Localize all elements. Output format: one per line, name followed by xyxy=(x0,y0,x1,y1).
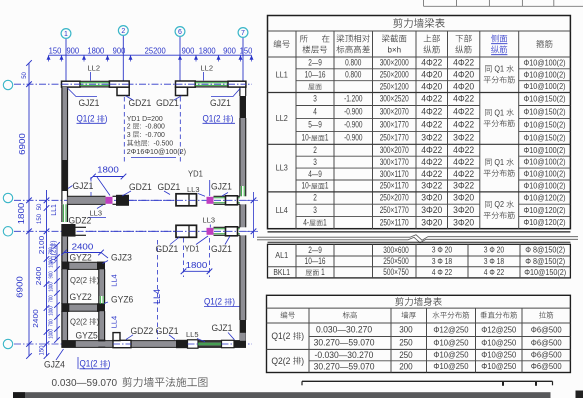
svg-text:Q1: Q1 xyxy=(492,65,506,74)
svg-text:300×600: 300×600 xyxy=(383,245,408,255)
svg-text:300×2070: 300×2070 xyxy=(380,107,409,117)
bottom wall base xyxy=(62,341,247,348)
svg-text:300: 300 xyxy=(399,324,413,334)
svg-text:Φ12@250: Φ12@250 xyxy=(481,324,516,334)
svg-text:30.270—59.070: 30.270—59.070 xyxy=(314,361,375,371)
svg-text:GDZ1: GDZ1 xyxy=(158,182,181,192)
table 剪力墙梁表 grid xyxy=(268,16,571,232)
right wall Q1 wall upper xyxy=(240,118,246,186)
dashed guide below axis2 column xyxy=(123,97,125,162)
dimension 2400 (shaft) xyxy=(61,242,108,258)
svg-text:GJZ1: GJZ1 xyxy=(211,182,232,192)
svg-text:1000: 1000 xyxy=(49,306,55,316)
svg-text:0.030—30.270: 0.030—30.270 xyxy=(316,324,372,334)
left wall room section xyxy=(62,269,68,340)
middle wall 2 column GDZ1 xyxy=(176,225,197,237)
svg-text:LL5: LL5 xyxy=(186,330,199,339)
svg-text:AL1: AL1 xyxy=(275,251,288,260)
top wall column GDZ1 (axis 2) xyxy=(109,81,129,96)
svg-text:GJZ1: GJZ1 xyxy=(79,98,100,108)
svg-text:Q1(2: Q1(2 xyxy=(80,359,100,369)
label GYZ6 with leader xyxy=(104,295,133,305)
svg-text:Q1: Q1 xyxy=(492,158,506,167)
svg-text:250×1170: 250×1170 xyxy=(380,217,409,227)
svg-text:LL4: LL4 xyxy=(109,316,118,329)
labels GDZ1 YD1 GJZ1 below wall2 xyxy=(156,236,232,254)
svg-text:GDZ2: GDZ2 xyxy=(69,216,92,226)
svg-text:Q2(2: Q2(2 xyxy=(271,356,292,367)
svg-text:4Φ22: 4Φ22 xyxy=(453,157,474,167)
label GJZ1 bottom-right xyxy=(212,323,235,340)
shaft divider wall + columns GYZ2 GYZ6 xyxy=(61,303,105,312)
table 剪力墙身表 grid xyxy=(267,295,571,372)
svg-text:3Φ22: 3Φ22 xyxy=(421,181,442,191)
svg-text:: -0.700: : -0.700 xyxy=(140,130,165,139)
svg-text:Φ10@150(2): Φ10@150(2) xyxy=(524,94,566,104)
rows AL1 BKL1 xyxy=(273,245,566,277)
svg-text:3: 3 xyxy=(313,205,317,215)
svg-text:LL1: LL1 xyxy=(51,204,58,216)
svg-text:3: 3 xyxy=(313,94,317,104)
label LL4 rotated (room1) xyxy=(109,274,118,287)
svg-text:2—9: 2—9 xyxy=(308,245,322,255)
svg-text:4Φ22: 4Φ22 xyxy=(453,145,474,155)
svg-text:2100: 2100 xyxy=(37,236,46,254)
note block YD1 D=200 levels xyxy=(127,114,186,157)
svg-text:900: 900 xyxy=(113,47,126,56)
right small dim marks xyxy=(246,192,258,238)
svg-text:Φ6@500: Φ6@500 xyxy=(531,350,562,360)
top wall segment LL2-left (green) xyxy=(80,81,109,87)
svg-text:GDZ1 GDZ1: GDZ1 GDZ1 xyxy=(129,98,179,108)
svg-text:Q1(2: Q1(2 xyxy=(271,331,292,342)
svg-text:): ) xyxy=(231,114,234,124)
svg-text:2: 2 xyxy=(313,193,317,203)
label GYZ5 xyxy=(76,330,98,340)
svg-text:LL3: LL3 xyxy=(276,163,288,173)
svg-text:Φ10@150(2): Φ10@150(2) xyxy=(524,119,566,129)
left wall below wall2 xyxy=(62,237,68,262)
label LL5 with leader xyxy=(186,330,205,342)
svg-text:Φ6@500: Φ6@500 xyxy=(531,338,562,348)
middle wall 1 centerline gap xyxy=(129,199,176,201)
label Q1(2排) right underlined xyxy=(204,297,240,307)
svg-text:Φ10@100(2): Φ10@100(2) xyxy=(524,58,566,68)
svg-text:50: 50 xyxy=(37,203,43,210)
svg-text:4Φ22: 4Φ22 xyxy=(421,157,442,167)
label GDZ2 left wall xyxy=(69,216,92,226)
svg-text:0.800: 0.800 xyxy=(345,70,361,80)
svg-text:Φ10@150(2): Φ10@150(2) xyxy=(524,267,566,277)
svg-text:150: 150 xyxy=(37,213,43,224)
label GJZ4 with leader xyxy=(44,349,65,370)
left dim chain small 700 1000 xyxy=(49,242,60,343)
label LL4 rotated (room2) xyxy=(109,316,118,329)
svg-text:4-: 4- xyxy=(303,217,309,227)
svg-text:4—9: 4—9 xyxy=(308,169,322,179)
svg-text:3Φ22: 3Φ22 xyxy=(453,133,474,143)
svg-text:2: 2 xyxy=(121,28,125,35)
svg-text:3Φ20: 3Φ20 xyxy=(421,205,442,215)
svg-text:1800: 1800 xyxy=(97,165,119,175)
svg-text:4Φ22: 4Φ22 xyxy=(453,169,474,179)
svg-text:3Φ20: 3Φ20 xyxy=(453,193,474,203)
svg-text:3Φ20: 3Φ20 xyxy=(421,217,442,227)
label GJZ1 top-right with leader xyxy=(210,88,241,108)
middle wall 1 left segment xyxy=(68,196,106,204)
break line (table interrupt) xyxy=(257,235,578,243)
svg-text:3Φ20: 3Φ20 xyxy=(453,217,474,227)
label Q1(2排) top-left underlined xyxy=(77,114,108,124)
label GJZ1 wall1-right xyxy=(211,182,232,196)
shaft room top wall + columns GYZ2 GJZ3 xyxy=(61,262,105,270)
svg-text:1800: 1800 xyxy=(87,47,104,56)
svg-text:5—9: 5—9 xyxy=(308,120,322,130)
svg-text:LL3: LL3 xyxy=(187,185,200,194)
svg-text:LL2: LL2 xyxy=(276,113,288,123)
svg-text:-0.030—30.270: -0.030—30.270 xyxy=(315,350,374,360)
svg-text:Φ10@250: Φ10@250 xyxy=(433,338,468,348)
svg-text:25200: 25200 xyxy=(145,47,167,56)
svg-text:2400: 2400 xyxy=(31,309,40,327)
label YD1 wall1-right xyxy=(188,170,210,196)
svg-text:Φ10@250: Φ10@250 xyxy=(433,361,468,371)
dashed guides 1800 dim (bottom) xyxy=(184,238,210,277)
dashed guide below top-left 1800 xyxy=(90,177,92,196)
svg-text:300×1770: 300×1770 xyxy=(380,157,409,167)
svg-text:300×1770: 300×1770 xyxy=(380,120,409,130)
svg-text:300×2520: 300×2520 xyxy=(380,94,409,104)
table title 剪力墙身表 xyxy=(395,297,442,306)
svg-text:Q2(2: Q2(2 xyxy=(70,275,89,285)
svg-text:GJZ1: GJZ1 xyxy=(210,98,231,108)
left dim chain main 6900 1800 6900 xyxy=(15,60,32,359)
svg-text:4Φ22: 4Φ22 xyxy=(421,120,442,130)
rows LL2 xyxy=(276,94,566,143)
caption 0.030-59.070 剪力墙平法施工图 xyxy=(52,377,208,389)
svg-text:LL3: LL3 xyxy=(90,208,103,217)
svg-text:4Φ20: 4Φ20 xyxy=(421,70,442,80)
svg-text:250×1770: 250×1770 xyxy=(380,133,409,143)
left wall beam LL1 (green) xyxy=(62,191,68,222)
svg-text:LL2: LL2 xyxy=(201,63,214,72)
middle wall 1 right segment (green) xyxy=(214,196,240,205)
svg-text:-0.900: -0.900 xyxy=(344,120,362,130)
svg-text:Φ10@150(2): Φ10@150(2) xyxy=(524,132,566,142)
right wall beam (green) above wall1 xyxy=(240,186,246,196)
svg-text:1000: 1000 xyxy=(49,282,55,292)
svg-text:150: 150 xyxy=(49,47,62,56)
svg-text:Φ6@500: Φ6@500 xyxy=(531,324,562,334)
svg-text:500×750: 500×750 xyxy=(383,267,408,277)
svg-text:6900: 6900 xyxy=(15,276,25,298)
svg-text:1: 1 xyxy=(323,217,327,227)
shaft right wall LL4 xyxy=(98,269,105,347)
svg-text:6: 6 xyxy=(178,29,182,36)
label LL3 above wall2-right xyxy=(203,216,216,228)
svg-text:2Φ16Φ10@100(2): 2Φ16Φ10@100(2) xyxy=(127,147,186,156)
svg-text:6900: 6900 xyxy=(17,133,27,155)
svg-text:Q1(2: Q1(2 xyxy=(51,250,58,264)
opening YD1 on wall 1 left (magenta) xyxy=(106,197,113,204)
table 2 rows Q1 Q2 xyxy=(271,324,562,371)
svg-text:Φ10@120(2): Φ10@120(2) xyxy=(524,205,566,215)
svg-text:4Φ22: 4Φ22 xyxy=(421,169,442,179)
left dim chain second 2100 2400 2400 xyxy=(31,190,49,359)
svg-text:GDZ2 GDZ1: GDZ2 GDZ1 xyxy=(131,326,179,336)
svg-text:2400: 2400 xyxy=(72,242,94,252)
axis centerline bottom wall xyxy=(14,343,252,345)
svg-text:3: 3 xyxy=(313,157,317,167)
svg-text:LL3: LL3 xyxy=(203,216,216,225)
middle wall 1 segment to axis2 column xyxy=(113,195,130,206)
svg-text:700: 700 xyxy=(49,295,55,302)
svg-text:1: 1 xyxy=(64,31,68,38)
rows LL4 xyxy=(276,193,566,228)
right wall between walls xyxy=(240,204,246,227)
svg-text:50: 50 xyxy=(22,71,28,78)
svg-text:GYZ5: GYZ5 xyxy=(76,330,98,340)
svg-text:1800: 1800 xyxy=(16,202,26,224)
svg-text:3Φ22: 3Φ22 xyxy=(453,181,474,191)
labels GDZ2 GDZ1 bottom wall xyxy=(126,326,179,339)
axis centerline D (top wall) xyxy=(14,83,252,85)
svg-text:4Φ20: 4Φ20 xyxy=(421,81,442,91)
svg-text:30.270—59.070: 30.270—59.070 xyxy=(314,338,375,348)
dimension 1800 (top-left interior) xyxy=(90,165,126,196)
label GJZ3 with leader xyxy=(103,252,132,263)
label LL3 wall1-right xyxy=(187,185,205,196)
bottom right corner mark xyxy=(576,391,583,398)
svg-text:250×1770: 250×1770 xyxy=(380,205,409,215)
left axis bubbles xyxy=(3,80,12,348)
svg-text:4Φ22: 4Φ22 xyxy=(453,58,474,68)
svg-text:): ) xyxy=(51,241,58,243)
svg-text:150: 150 xyxy=(240,47,253,56)
svg-text:3 Φ 20: 3 Φ 20 xyxy=(484,245,505,255)
left wall column GJZ1 xyxy=(61,160,68,191)
svg-text:Φ10@100(2): Φ10@100(2) xyxy=(524,181,566,191)
svg-text:): ) xyxy=(97,275,100,285)
svg-text:Φ 8@150(2): Φ 8@150(2) xyxy=(525,245,565,255)
svg-text:LL2: LL2 xyxy=(88,63,101,72)
bottom wall columns GDZ2 GDZ1 xyxy=(176,340,198,348)
svg-text:4Φ20: 4Φ20 xyxy=(453,70,474,80)
svg-text:-1.200: -1.200 xyxy=(344,94,362,104)
svg-text:Φ10@120(2): Φ10@120(2) xyxy=(524,193,566,203)
label LL3 below wall1-left xyxy=(88,205,106,218)
svg-text:3Φ20: 3Φ20 xyxy=(421,193,442,203)
bottom wall column right + corner GJZ1 xyxy=(222,333,247,348)
svg-text:3 Φ 18: 3 Φ 18 xyxy=(432,256,453,266)
svg-text:-0.900: -0.900 xyxy=(344,133,362,143)
label GJZ1 on left wall xyxy=(68,181,93,191)
svg-text:Φ10@100(2): Φ10@100(2) xyxy=(524,169,566,179)
svg-text:4Φ22: 4Φ22 xyxy=(421,94,442,104)
svg-text:BKL1: BKL1 xyxy=(273,268,290,277)
svg-text:7: 7 xyxy=(241,30,245,37)
label Q2(2排) room2 xyxy=(70,316,99,326)
label GYZ2 (lower) xyxy=(70,292,92,302)
svg-text:4Φ22: 4Φ22 xyxy=(453,107,474,117)
svg-text:GJZ3: GJZ3 xyxy=(111,252,132,262)
axis bubbles 1 2 6 7 xyxy=(61,26,248,96)
top wall column GDZ1 (axis 6) xyxy=(176,81,196,96)
svg-text:3 Φ 18: 3 Φ 18 xyxy=(484,256,505,266)
table 2 header xyxy=(281,311,554,318)
bottom wall corner GJZ4 xyxy=(61,340,76,347)
svg-text:3Φ22: 3Φ22 xyxy=(421,133,442,143)
label GYZ2 (upper) xyxy=(70,252,92,262)
svg-text:4Φ22: 4Φ22 xyxy=(421,145,442,155)
svg-text:4 Φ 22: 4 Φ 22 xyxy=(432,267,453,277)
svg-text:250: 250 xyxy=(399,350,413,360)
svg-text:300×2000: 300×2000 xyxy=(380,58,409,68)
top wall corner column GJZ1 (right) xyxy=(228,81,246,87)
svg-text:4Φ22: 4Φ22 xyxy=(421,58,442,68)
svg-text:250×2000: 250×2000 xyxy=(380,70,409,80)
middle wall 2 right segment (green) xyxy=(214,227,240,236)
table header row xyxy=(274,34,553,54)
svg-text:250: 250 xyxy=(399,338,413,348)
svg-text:1800: 1800 xyxy=(186,260,208,270)
svg-text:Q2: Q2 xyxy=(492,200,506,209)
svg-text:4Φ22: 4Φ22 xyxy=(453,94,474,104)
axis centerline wall1 xyxy=(14,199,252,201)
svg-text:GDZ1: GDZ1 xyxy=(129,182,152,192)
svg-text:1: 1 xyxy=(319,267,324,277)
svg-text:4: 4 xyxy=(313,107,317,117)
svg-text:4Φ20: 4Φ20 xyxy=(453,81,474,91)
label Q1(2排) bottom underlined xyxy=(78,357,111,369)
right wall lower Q1 xyxy=(240,235,246,341)
svg-text:Q1(2: Q1(2 xyxy=(203,114,223,124)
rows LL3 xyxy=(276,145,566,191)
svg-text:GJZ1: GJZ1 xyxy=(212,323,233,333)
label LL1 rotated left wall xyxy=(51,204,58,216)
svg-text:1: 1 xyxy=(325,133,329,143)
svg-text:YD1: YD1 xyxy=(188,170,203,179)
svg-text:0.030—59.070: 0.030—59.070 xyxy=(52,378,120,389)
left wall upper (Q1 wall) xyxy=(62,87,68,160)
table AL1/BKL1 grid xyxy=(268,242,571,278)
svg-text:Φ10@120(2): Φ10@120(2) xyxy=(524,217,566,227)
svg-text:Φ10@250: Φ10@250 xyxy=(433,350,468,360)
svg-text:GJZ4: GJZ4 xyxy=(44,360,65,370)
svg-text:4Φ22: 4Φ22 xyxy=(421,107,442,117)
svg-text:0.800: 0.800 xyxy=(345,58,361,68)
svg-text:Φ10@250: Φ10@250 xyxy=(481,338,516,348)
svg-text:2—9: 2—9 xyxy=(308,58,322,68)
svg-text:Φ10@100(2): Φ10@100(2) xyxy=(524,145,566,155)
svg-text:LL4: LL4 xyxy=(152,289,162,304)
dimension 1800 (bottom interior) xyxy=(181,260,213,274)
bottom gray bar xyxy=(13,392,551,398)
left wall column GDZ2 block xyxy=(61,224,75,237)
svg-text:Φ10@100(2): Φ10@100(2) xyxy=(524,69,566,79)
svg-text:10-: 10- xyxy=(302,181,311,191)
svg-text:YD1: YD1 xyxy=(185,244,200,253)
scale bar under table xyxy=(302,381,553,386)
svg-text:Φ 8@150(2): Φ 8@150(2) xyxy=(525,256,565,266)
svg-text:700: 700 xyxy=(49,319,55,326)
label LL2 left xyxy=(88,63,101,80)
dashed guide below axis6 column xyxy=(179,97,181,162)
rows LL1 xyxy=(276,58,566,92)
svg-text:Φ10@100(2): Φ10@100(2) xyxy=(524,81,566,91)
svg-text:GYZ6: GYZ6 xyxy=(111,295,133,305)
svg-text:): ) xyxy=(232,297,235,307)
svg-text:10—16: 10—16 xyxy=(305,256,326,266)
svg-text:GDZ1: GDZ1 xyxy=(156,244,179,254)
svg-text:3 Φ 20: 3 Φ 20 xyxy=(432,245,453,255)
bottom wall beam LL5 (green) xyxy=(198,342,222,346)
right wall column GJZ1 top xyxy=(240,87,246,118)
svg-text:900: 900 xyxy=(49,271,55,278)
svg-text:Φ10@250: Φ10@250 xyxy=(481,350,516,360)
svg-text:LL4: LL4 xyxy=(276,205,288,215)
svg-text:): ) xyxy=(97,316,100,326)
svg-text:Q1(2: Q1(2 xyxy=(204,297,224,307)
svg-text:): ) xyxy=(301,356,304,367)
bottom wall column GDZ3 with stub xyxy=(113,333,131,348)
axis centerline wall2 xyxy=(14,230,252,232)
svg-text:250×1200: 250×1200 xyxy=(380,81,409,91)
svg-text:b×h: b×h xyxy=(388,45,402,54)
svg-text:GYZ2: GYZ2 xyxy=(70,252,92,262)
top wall segment LL2-right (green) xyxy=(195,81,228,87)
label Q2(2排) room1 xyxy=(70,275,99,285)
svg-text:Q1: Q1 xyxy=(492,108,506,117)
svg-text:1800: 1800 xyxy=(199,47,216,56)
svg-text:LL1: LL1 xyxy=(276,69,288,79)
svg-text:250×1170: 250×1170 xyxy=(380,181,409,191)
side bar notes 同Q1水平分布筋 xyxy=(484,65,515,219)
label Q1(2排) top-right underlined xyxy=(203,114,236,124)
svg-text:1: 1 xyxy=(325,181,329,191)
svg-text:250×500: 250×500 xyxy=(383,256,408,266)
middle wall 2 left segment xyxy=(76,227,87,235)
svg-text:): ) xyxy=(301,331,304,342)
svg-text:3Φ20: 3Φ20 xyxy=(453,205,474,215)
svg-text:900: 900 xyxy=(182,47,195,56)
labels GDZ1 GDZ1 wall1 xyxy=(122,182,180,196)
opening YD1 on wall 2 (magenta) xyxy=(207,228,214,235)
svg-text:Φ10@100(2): Φ10@100(2) xyxy=(524,157,566,167)
centerline overlays over columns xyxy=(62,84,247,344)
svg-text:Φ12@250: Φ12@250 xyxy=(433,324,468,334)
svg-text:Φ6@500: Φ6@500 xyxy=(531,361,562,371)
label GJZ1 top-left with leader xyxy=(68,88,100,108)
svg-text:): ) xyxy=(105,114,108,124)
svg-text:250×2070: 250×2070 xyxy=(380,193,409,203)
label LL4 rotated (large) xyxy=(152,289,162,304)
svg-text:GJZ1: GJZ1 xyxy=(73,181,94,191)
svg-text:LL4: LL4 xyxy=(109,274,118,287)
svg-text:2: 2 xyxy=(313,145,317,155)
svg-text:1000: 1000 xyxy=(49,329,55,339)
svg-text:4 Φ 22: 4 Φ 22 xyxy=(484,267,505,277)
svg-text:200: 200 xyxy=(399,361,413,371)
svg-text:-0.900: -0.900 xyxy=(344,107,362,117)
middle wall 1 column GDZ1 (axis 6) xyxy=(176,194,197,206)
svg-text:900: 900 xyxy=(66,47,79,56)
svg-text:): ) xyxy=(108,359,111,369)
svg-text:4Φ22: 4Φ22 xyxy=(453,120,474,130)
top dimension line 150 900 1800 900 25200 900 1800 900 150 xyxy=(47,47,254,62)
svg-text:300×2070: 300×2070 xyxy=(380,145,409,155)
svg-text:GYZ2: GYZ2 xyxy=(70,292,92,302)
